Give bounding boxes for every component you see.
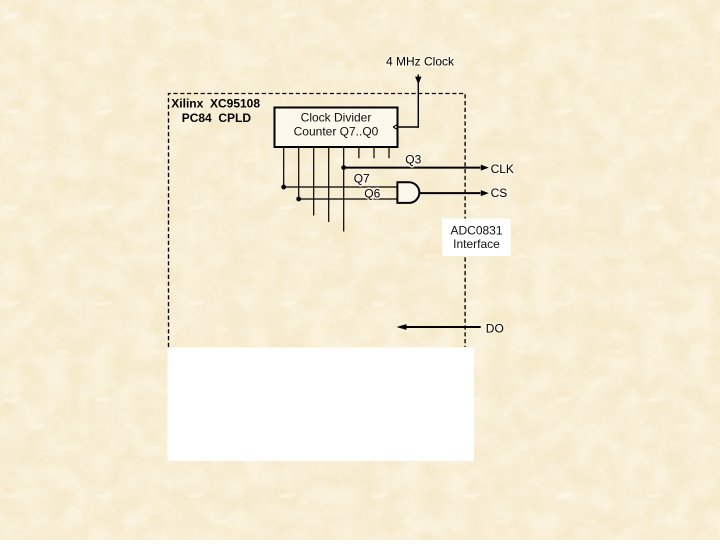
svg-text:4 MHz Clock: 4 MHz Clock bbox=[386, 54, 455, 68]
svg-text:Interface: Interface bbox=[453, 237, 500, 251]
svg-text:CLK: CLK bbox=[491, 162, 514, 176]
svg-text:Counter Q7..Q0: Counter Q7..Q0 bbox=[294, 125, 379, 139]
svg-text:CS: CS bbox=[491, 186, 508, 200]
svg-text:Q3: Q3 bbox=[405, 153, 421, 167]
svg-text:Q7: Q7 bbox=[354, 172, 370, 186]
svg-text:Q6: Q6 bbox=[364, 186, 380, 200]
svg-text:PC84 CPLD: PC84 CPLD bbox=[182, 111, 252, 125]
svg-text:Xilinx XC95108: Xilinx XC95108 bbox=[171, 97, 260, 111]
svg-text:ADC0831: ADC0831 bbox=[450, 223, 502, 237]
svg-text:Clock Divider: Clock Divider bbox=[301, 110, 372, 124]
svg-text:DO: DO bbox=[486, 321, 504, 335]
